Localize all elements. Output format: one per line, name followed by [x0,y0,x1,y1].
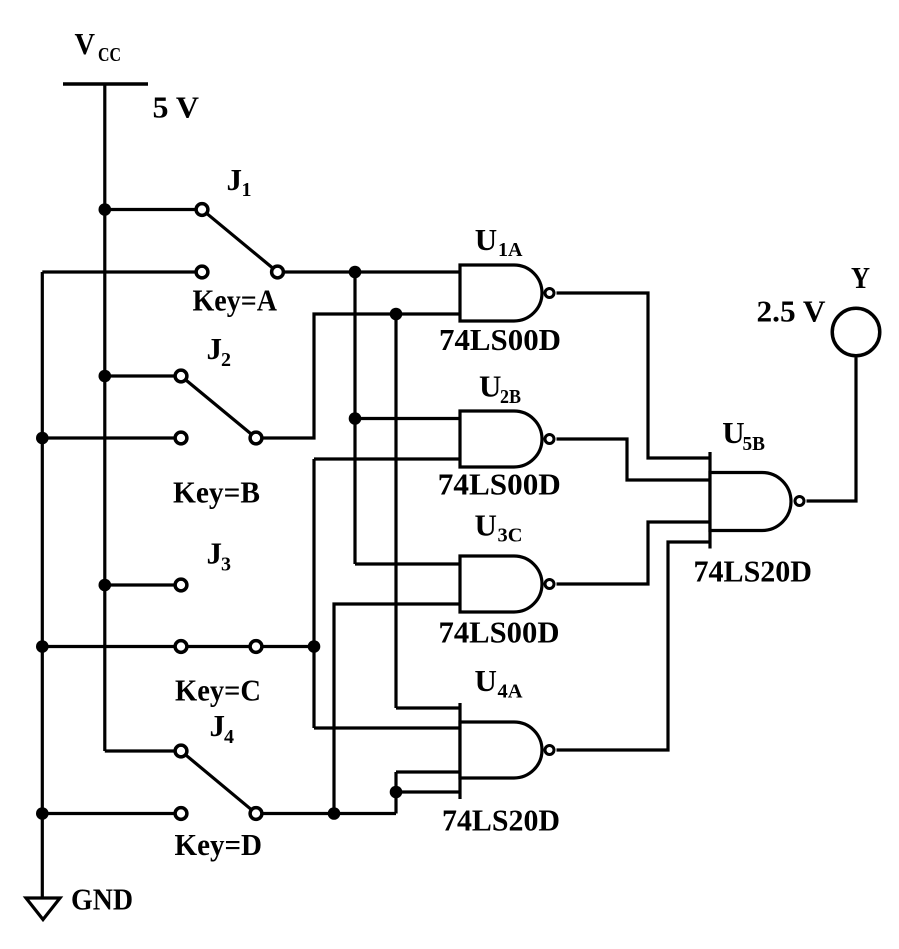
node junction C1 [308,640,321,653]
wire U5B output to probe [807,358,857,502]
wire net A to U3C input 1 [355,562,460,565]
wire net C: J3 pole to junction [263,645,314,648]
svg-text:J: J [207,536,223,571]
switch J1 [42,162,283,278]
wire U1A output to U5B input 1 [557,293,711,458]
gate U5B 4-input NAND [710,415,804,549]
wire net C vertical [312,459,315,728]
wire net A vertical [353,272,356,564]
svg-text:2.5 V: 2.5 V [757,294,827,329]
wire net D to U4A input 3 [396,770,460,773]
svg-text:74LS00D: 74LS00D [439,615,560,650]
node junction A1 [349,266,362,279]
svg-text:J: J [227,162,243,197]
node junction GND-J3 [36,640,49,653]
wire net A to U2B input 1 [355,417,460,420]
node junction VCC-J3 [99,579,112,592]
svg-text:Y: Y [851,260,870,295]
svg-text:Key=D: Key=D [175,827,263,862]
svg-text:74LS20D: 74LS20D [694,554,813,589]
wire net B vertical [394,314,397,708]
switch J4 [42,708,262,819]
power symbol VCC [63,26,148,84]
node junction GND-J4 [36,807,49,820]
wire net D: J4 pole run [263,812,396,815]
svg-text:74LS00D: 74LS00D [439,322,561,357]
node junction VCC-J2 [99,370,112,383]
node junction B1 [390,308,403,321]
wire net D riser at U4A [394,772,397,814]
wire net C to U4A input 2 [314,726,460,729]
gate U3C NAND [460,508,554,613]
svg-text:2B: 2B [500,386,521,408]
wire U3C output to U5B input 3 [557,522,711,584]
svg-text:Key=A: Key=A [193,283,278,318]
node junction D1 [328,807,341,820]
svg-text:U: U [722,415,744,450]
svg-text:74LS20D: 74LS20D [442,803,560,838]
switch J2 [42,331,262,444]
svg-text:1: 1 [242,179,252,201]
gate U4A 4-input NAND [460,663,554,799]
probe Y [832,260,880,356]
node junction VCC-J1 [99,203,112,216]
gate U1A NAND [460,222,554,321]
svg-text:V: V [75,26,96,61]
svg-text:3: 3 [221,554,231,576]
svg-text:2: 2 [221,349,231,371]
wire net A: J1 pole to U1A input 1 [285,270,460,273]
svg-text:4: 4 [224,726,234,748]
wire net C to U2B input 2 [314,457,460,460]
wire U2B output to U5B input 2 [557,439,711,480]
svg-text:4A: 4A [498,681,524,703]
svg-text:U: U [475,222,497,257]
node junction D2 [390,786,403,799]
gate U2B NAND [460,369,554,468]
node junction A2 [349,412,362,425]
svg-text:74LS00D: 74LS00D [438,467,561,502]
svg-text:U: U [479,369,501,404]
svg-text:J: J [207,331,223,366]
wire U4A output to U5B input 4 [557,542,711,750]
svg-text:5B: 5B [743,433,766,455]
node junction GND-J2 [36,432,49,445]
svg-text:Key=B: Key=B [173,474,260,509]
svg-text:U: U [475,663,497,698]
svg-text:1A: 1A [498,239,523,261]
wire net B: J2 pole to U1A input 2 [263,314,460,438]
ground [26,882,133,920]
svg-text:5 V: 5 V [153,90,200,125]
svg-text:U: U [475,508,497,543]
svg-text:GND: GND [71,882,133,917]
svg-text:CC: CC [98,44,121,66]
svg-text:Key=C: Key=C [175,672,261,707]
wire VCC rail [103,84,106,751]
wire GND rail [41,272,44,898]
svg-text:3C: 3C [498,525,523,547]
wire net D to U4A input 4 [396,790,460,793]
wire net D vertical to U3C input 2 [334,604,460,814]
switch J3 [42,536,262,653]
svg-text:J: J [210,708,226,743]
wire net B to U4A input 1 [396,706,460,709]
